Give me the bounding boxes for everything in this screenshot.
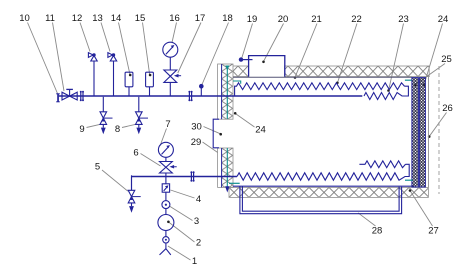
label 2 leader	[167, 221, 201, 249]
recirculation pipe 28 outer line	[240, 187, 402, 214]
top heater coil 22 (upper zigzag)	[235, 83, 405, 96]
svg-text:1: 1	[192, 256, 197, 267]
right wall inner lining column 25	[412, 78, 419, 187]
svg-text:11: 11	[45, 13, 55, 24]
svg-text:15: 15	[135, 13, 146, 24]
valve 17 stem	[169, 82, 171, 96]
top port box 20	[249, 56, 285, 77]
safety relief valve 13	[108, 53, 117, 96]
svg-text:4: 4	[196, 194, 201, 205]
svg-text:10: 10	[19, 13, 30, 24]
thermocouple probe lower (teal) with outlet arrow	[225, 148, 229, 193]
flange pair on lower line	[190, 171, 194, 182]
svg-text:18: 18	[222, 13, 233, 24]
svg-text:14: 14	[111, 13, 122, 24]
top heater coil 23 (lower zigzag on feed line)	[364, 86, 408, 99]
svg-text:23: 23	[398, 14, 409, 25]
label 26 leader	[428, 103, 453, 138]
measuring cartridge 14	[125, 72, 133, 96]
flange pair on main line (left)	[80, 91, 84, 102]
vent valve 9	[100, 97, 113, 134]
teal sensor dash bottom left	[229, 182, 240, 184]
measuring cartridge 15	[146, 72, 154, 96]
svg-text:28: 28	[372, 226, 383, 237]
safety relief valve 12	[88, 53, 97, 96]
label 9 leader	[79, 124, 100, 135]
pressure gauge 7	[158, 142, 173, 157]
label 14 leader	[111, 13, 132, 76]
label 10 leader	[19, 13, 57, 94]
svg-text:5: 5	[95, 162, 100, 173]
label 20 leader	[262, 14, 288, 63]
svg-text:2: 2	[196, 238, 201, 249]
suction strainer fork	[160, 243, 171, 255]
svg-text:3: 3	[194, 216, 199, 227]
ceiling line of chamber interior	[233, 76, 412, 78]
svg-text:9: 9	[79, 124, 84, 135]
gauge 16 stem	[169, 57, 171, 70]
thermocouple probe upper (teal)	[225, 66, 229, 120]
label 15 leader	[135, 13, 152, 76]
furnace top wall insulation right piece	[285, 66, 430, 77]
svg-text:19: 19	[247, 14, 258, 25]
floor line of chamber interior	[233, 185, 414, 187]
furnace bottom wall insulation	[229, 187, 428, 197]
port opening bracket on left wall	[213, 119, 219, 148]
label 23 leader	[387, 14, 409, 92]
svg-text:8: 8	[115, 124, 120, 135]
label 18 leader	[202, 13, 233, 85]
stem	[165, 231, 167, 237]
svg-text:24: 24	[438, 14, 449, 25]
teal sensor dash top left	[233, 81, 241, 84]
regulating valve 6 with arrow	[160, 162, 177, 174]
filter box 4	[162, 184, 169, 192]
label 28 leader	[358, 213, 382, 237]
label 21 leader	[294, 14, 322, 79]
label 8 leader	[115, 124, 136, 135]
bottom heater coil upper zigzag	[359, 161, 405, 168]
label 29 leader	[191, 137, 228, 160]
svg-text:16: 16	[169, 13, 180, 24]
vent valve 5	[128, 175, 141, 212]
svg-text:7: 7	[165, 119, 170, 130]
label 25 leader	[414, 54, 452, 86]
rotameter 3	[162, 201, 170, 209]
bottom heater coil long zigzag	[237, 164, 409, 180]
label 24 leader	[234, 112, 266, 136]
label 11 leader	[45, 13, 64, 91]
svg-text:20: 20	[278, 14, 289, 25]
label 16 leader	[169, 13, 180, 43]
label 12 leader	[72, 13, 90, 52]
svg-text:26: 26	[442, 103, 453, 114]
branch to vent valve 5	[131, 177, 133, 191]
left wall upper column	[218, 64, 233, 119]
right wall outer lining column 24	[419, 78, 425, 187]
furnace top wall insulation left piece	[228, 66, 249, 77]
label 6 leader	[133, 148, 160, 167]
vent valve 8	[136, 97, 149, 134]
label 30 leader	[191, 122, 222, 136]
svg-text:13: 13	[92, 13, 103, 24]
label 27 leader	[409, 189, 439, 236]
main gas feed line	[59, 95, 363, 97]
pipe end cap 10	[56, 94, 60, 102]
label 5 leader	[95, 162, 128, 192]
svg-text:22: 22	[351, 14, 362, 25]
casing right edge line	[428, 77, 430, 187]
svg-text:25: 25	[441, 54, 452, 65]
teal sensor dash top right	[405, 79, 412, 81]
inlet fitting 1	[163, 237, 169, 243]
gauge 7 stem	[165, 157, 167, 161]
label 13 leader	[92, 13, 110, 52]
svg-text:29: 29	[191, 137, 202, 148]
svg-text:24: 24	[255, 125, 266, 136]
stem	[165, 209, 167, 215]
dashed boundary line 26	[438, 66, 440, 194]
label 1 leader	[168, 246, 197, 267]
svg-text:27: 27	[428, 226, 439, 237]
label 24 leader	[423, 14, 449, 86]
lower feed line	[132, 176, 238, 178]
pressure gauge 16	[163, 42, 178, 57]
flange pair on main line (right)	[188, 91, 192, 102]
svg-text:6: 6	[133, 148, 138, 159]
pump 2	[158, 215, 174, 231]
svg-text:17: 17	[195, 13, 206, 24]
label 3 leader	[170, 206, 199, 227]
svg-text:21: 21	[311, 14, 322, 25]
label 7 leader	[160, 119, 171, 146]
stem	[165, 192, 167, 201]
port stub pipe with node 19	[239, 57, 253, 61]
teal sensor dash bottom right	[405, 179, 413, 181]
label 19 leader	[242, 14, 257, 58]
recirculation pipe 28 inner line	[242, 187, 399, 212]
shut-off globe valve 11	[62, 89, 77, 100]
label 17 leader	[178, 13, 205, 73]
label 22 leader	[336, 14, 362, 84]
temperature sensor node 18	[199, 84, 204, 96]
regulating valve 17 with arrow	[164, 70, 181, 82]
valve 6 stem	[165, 173, 167, 184]
svg-text:30: 30	[191, 122, 202, 133]
left wall lower column	[218, 148, 233, 187]
label 4 leader	[171, 190, 202, 205]
svg-text:12: 12	[72, 13, 83, 24]
